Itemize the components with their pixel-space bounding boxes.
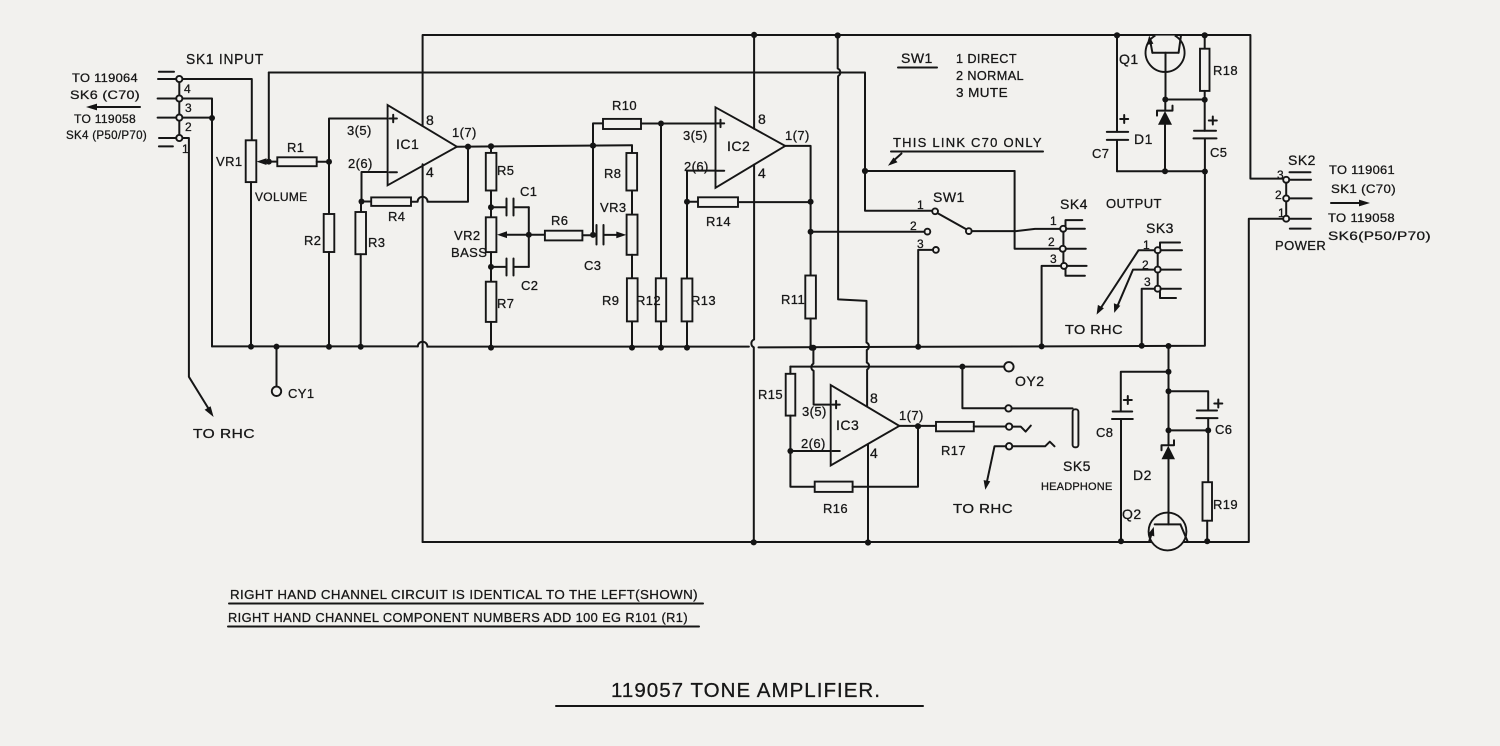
junction pins 2-3: [209, 115, 215, 121]
svg-text:R1: R1: [287, 140, 304, 155]
wire V+ to IC3 pin8 (long, hops link rail, ground rail, OY2 wire): [838, 36, 869, 408]
svg-text:SK4: SK4: [1060, 196, 1088, 212]
wire R10 to IC2 plus: [641, 123, 716, 125]
wire base node to R18 bottom: [1165, 99, 1204, 101]
jack contact (tip, with break): [1006, 423, 1031, 431]
svg-text:SW1: SW1: [933, 189, 965, 205]
svg-text:OUTPUT: OUTPUT: [1106, 196, 1162, 211]
junction OY2 tee: [959, 364, 965, 370]
ground rail: [212, 172, 1205, 348]
wire OY2 net (R15 top along to jack): [790, 366, 962, 368]
wire R14 to IC2 output column: [738, 201, 811, 203]
potentiometer VR3: [600, 200, 638, 255]
resistor R17: [936, 422, 974, 458]
resistor R5: [486, 146, 515, 190]
svg-text:C1: C1: [520, 184, 537, 199]
svg-text:R13: R13: [691, 293, 716, 308]
potentiometer VR2: [451, 217, 496, 260]
wire SK3 pin2 with arrow to RHC: [1114, 270, 1155, 313]
label SW1 heading (underlined): [898, 50, 937, 68]
wire SW1 pole2 to IC2 output node: [811, 231, 925, 233]
capacitor C3: [584, 225, 604, 273]
SK1 left prongs: [158, 72, 177, 147]
svg-text:C2: C2: [521, 278, 538, 293]
resistor R14: [687, 197, 738, 229]
resistor R3: [355, 202, 385, 347]
junction R13 on rail: [684, 345, 690, 351]
resistor R7: [486, 282, 515, 322]
junction D2 cathode link: [1166, 427, 1172, 433]
VR2 wiper arrow: [497, 231, 507, 238]
svg-text:R3: R3: [368, 235, 385, 250]
svg-text:2: 2: [1048, 235, 1055, 249]
junction IC1 output: [465, 144, 471, 150]
junction IC2 pin8 on V+ rail: [751, 32, 757, 38]
title 119057 TONE AMPLIFIER (underlined): [556, 680, 923, 706]
svg-text:4: 4: [184, 82, 191, 96]
resistor R15: [758, 367, 795, 451]
wire IC2 minus input: [687, 171, 716, 202]
svg-text:2(6): 2(6): [801, 436, 826, 451]
wire ground node down to ground rail: [211, 118, 213, 346]
transistor Q2: [1122, 506, 1188, 550]
wire IC2 pin4 down to negative rail: [751, 165, 754, 543]
junction C8 on negative rail: [1118, 538, 1124, 544]
wire R9 bottom to ground rail: [631, 321, 633, 347]
svg-text:R5: R5: [497, 163, 514, 178]
svg-text:4: 4: [426, 164, 434, 180]
svg-text:3(5): 3(5): [802, 404, 827, 419]
svg-text:1(7): 1(7): [785, 128, 810, 143]
svg-text:2: 2: [185, 120, 192, 134]
transistor Q1: [1119, 36, 1185, 72]
svg-text:RIGHT HAND CHANNEL COMPONENT N: RIGHT HAND CHANNEL COMPONENT NUMBERS ADD…: [228, 610, 688, 625]
terminal OY2: [962, 362, 1044, 389]
svg-text:TO 119061: TO 119061: [1329, 163, 1395, 177]
svg-text:Q1: Q1: [1119, 51, 1139, 67]
resistor R13: [682, 202, 716, 348]
svg-text:1(7): 1(7): [452, 125, 477, 140]
junction ground link right end: [1202, 169, 1208, 175]
wire R17 to jack contact: [974, 426, 1006, 428]
junction D2 column on ground rail: [1166, 343, 1172, 349]
capacitor C5: [1194, 100, 1228, 172]
junction D1 anode on ground link: [1162, 168, 1168, 174]
svg-text:IC3: IC3: [836, 417, 859, 433]
junction C6 tap: [1166, 388, 1172, 394]
resistor R6: [545, 213, 583, 240]
resistor R12: [636, 124, 666, 348]
junction CY1 on rail: [274, 344, 280, 350]
svg-text:R8: R8: [604, 166, 621, 181]
resistor R11: [781, 276, 816, 348]
wire ground rail down to D2: [1168, 346, 1170, 444]
svg-text:R11: R11: [781, 292, 805, 307]
direct-link rail (VR1 wiper to SW1): [269, 73, 865, 172]
junction R7 on rail: [488, 345, 494, 351]
connector SK1 (input): [158, 51, 264, 156]
svg-text:3: 3: [1144, 275, 1151, 289]
svg-text:SW1: SW1: [901, 50, 933, 66]
junction R18 bottom node: [1202, 97, 1208, 103]
svg-text:R14: R14: [706, 214, 731, 229]
junction VR1 bottom on rail: [248, 344, 254, 350]
wire SW1 arm to SK4 column: [972, 230, 1015, 232]
svg-text:C3: C3: [584, 258, 601, 273]
wire C1 to C2 link: [528, 207, 530, 267]
wire IC1 output bus: [457, 145, 632, 147]
wire link (C70 only): [865, 170, 1015, 172]
wire +input node to IC1 plus: [329, 119, 388, 162]
junction direct-link on wiper line: [862, 168, 868, 174]
junction R12 on rail: [658, 345, 664, 351]
svg-text:SK6(P50/P70): SK6(P50/P70): [1328, 229, 1431, 243]
junction feedback node: [808, 199, 814, 205]
label THIS LINK C70 ONLY (underlined): [891, 135, 1043, 152]
wire IC2 pin8 to V+ rail: [753, 35, 755, 129]
arrowhead to RHC (bottom left): [205, 406, 214, 417]
junction C2 tap: [488, 264, 494, 270]
wire IC3 minus input: [790, 450, 830, 452]
junction R5 top on output bus: [488, 143, 494, 149]
svg-text:R19: R19: [1213, 497, 1238, 512]
wire to SK4 pin1: [1015, 229, 1061, 231]
svg-text:THIS LINK C70 ONLY: THIS LINK C70 ONLY: [893, 135, 1042, 150]
junction R2 bottom on rail: [326, 344, 332, 350]
svg-text:R12: R12: [636, 293, 661, 308]
svg-text:R2: R2: [304, 233, 321, 248]
connector SK4 (output): [1048, 196, 1162, 276]
capacitor C6: [1169, 391, 1233, 437]
wire wiper node up to direct-link rail: [268, 73, 270, 162]
note line 1 (underlined): [229, 587, 703, 604]
junction R15 bottom / minus input: [787, 448, 793, 454]
zener diode D1: [1134, 100, 1173, 172]
capacitor CY1: [272, 347, 315, 401]
junction C1 tap: [488, 204, 494, 210]
svg-text:C6: C6: [1215, 422, 1232, 437]
note line 2 (underlined): [228, 610, 699, 627]
wire R5 to VR2: [490, 191, 492, 218]
svg-text:2(6): 2(6): [348, 156, 373, 171]
jack contact (ring) wire: [962, 367, 1005, 409]
junction plus input on ground rail: [810, 345, 816, 351]
svg-text:1: 1: [917, 198, 924, 212]
svg-text:SK6 (C70): SK6 (C70): [70, 88, 140, 102]
junction R3/R4/minus: [359, 199, 365, 205]
svg-text:VR1: VR1: [216, 154, 243, 169]
resistor R2: [304, 162, 334, 347]
wire D2 cathode link to R19: [1169, 429, 1209, 431]
wire IC1 minus to R3/R4 node: [362, 172, 388, 202]
wire R7 bottom to ground rail: [490, 322, 492, 348]
junction output/R11/switch node: [808, 229, 814, 235]
arrow to SK6 (pointing left): [86, 104, 140, 111]
potentiometer VR1: [216, 140, 307, 204]
svg-text:VR2: VR2: [454, 228, 481, 243]
wire SK1 pin1 down: [182, 138, 210, 412]
svg-text:D1: D1: [1134, 131, 1153, 147]
negative rail (bottom): [423, 219, 1283, 542]
wire VR1 wiper to R1: [263, 161, 277, 163]
junction Q1 base node: [1162, 97, 1168, 103]
junction IC2 pin4 on negative rail: [751, 539, 757, 545]
svg-text:Q2: Q2: [1122, 506, 1142, 522]
wire VR2 to R7: [490, 252, 492, 282]
svg-text:R10: R10: [612, 98, 637, 113]
resistor R4: [362, 197, 412, 224]
junction IC3 output: [915, 423, 921, 429]
svg-text:8: 8: [426, 112, 434, 128]
jack contact (sleeve/switch): [1006, 442, 1055, 450]
wire SK3 pin3 to ground: [1142, 289, 1155, 346]
VR3 wiper arrow: [616, 232, 626, 239]
wire SW1 pole3 to ground: [918, 250, 933, 347]
wire IC3 pin4 to negative rail: [867, 444, 869, 543]
svg-text:VR3: VR3: [600, 200, 627, 215]
wire VR3 to R9: [631, 255, 633, 278]
resistor R10: [593, 98, 641, 146]
junction R11 on rail: [809, 345, 815, 351]
svg-text:TO RHC: TO RHC: [953, 501, 1013, 516]
wire SK4 pin3 to ground: [1042, 266, 1061, 347]
junction C7 top on V+ rail: [1114, 32, 1120, 38]
svg-text:R9: R9: [602, 293, 619, 308]
wire C3 to VR3 wiper: [604, 234, 621, 236]
svg-text:3(5): 3(5): [347, 123, 372, 138]
arrow to SK1 (pointing right): [1331, 200, 1370, 207]
svg-text:C5: C5: [1210, 145, 1227, 160]
capacitor C7: [1092, 35, 1128, 171]
wire wiper line down to SW1 pole 1: [865, 171, 932, 211]
wire sleeve contact with arrow to RHC: [984, 446, 1006, 489]
svg-text:1: 1: [1050, 214, 1057, 228]
wire VR1 bottom to ground rail: [250, 182, 252, 347]
wire IC1 pin4 down to negative rail: [422, 164, 424, 542]
svg-text:8: 8: [870, 390, 878, 406]
junction R18 top on V+ rail: [1202, 32, 1208, 38]
svg-text:SK1 INPUT: SK1 INPUT: [186, 51, 264, 68]
junction R12 tap: [658, 121, 664, 127]
svg-text:119057 TONE AMPLIFIER.: 119057 TONE AMPLIFIER.: [611, 680, 881, 702]
svg-text:SK3: SK3: [1146, 220, 1174, 236]
resistor R16: [790, 451, 852, 516]
junction C8 tap: [1166, 369, 1172, 375]
junction R3 bottom on rail: [358, 344, 364, 350]
svg-text:TO RHC: TO RHC: [1065, 322, 1123, 337]
svg-text:R4: R4: [388, 209, 405, 224]
op-amp IC1: [388, 105, 457, 185]
junction pole3 on ground rail: [915, 344, 921, 350]
resistor R1: [277, 140, 316, 166]
wire R16 to IC3 output: [853, 426, 918, 487]
switch SW1: [910, 189, 972, 253]
wire VR2 wiper to R6: [504, 234, 545, 236]
svg-text:R15: R15: [758, 387, 783, 402]
junction R9 on rail: [629, 345, 635, 351]
junction wiper node: [266, 159, 272, 165]
wire R8 to VR3: [631, 191, 633, 215]
svg-text:SK1 (C70): SK1 (C70): [1331, 182, 1396, 196]
svg-text:R6: R6: [551, 213, 568, 228]
svg-text:VOLUME: VOLUME: [255, 190, 307, 204]
svg-text:C7: C7: [1092, 146, 1109, 161]
svg-text:SK5: SK5: [1063, 458, 1091, 474]
svg-text:4: 4: [870, 445, 878, 461]
junction IC3 supply tap on V+ rail: [835, 32, 841, 38]
arrow from link note to link wire: [888, 154, 902, 166]
junction SK4 pin3 on rail: [1039, 343, 1045, 349]
svg-text:CY1: CY1: [288, 386, 315, 401]
junction C1-C2 link on wiper wire: [526, 232, 532, 238]
svg-text:IC2: IC2: [727, 138, 750, 154]
junction C3 node: [590, 232, 596, 238]
wire R4 to IC1 output (hops pin4 line): [411, 150, 468, 202]
jack contact ring circle: [1005, 405, 1011, 411]
capacitor C8: [1096, 372, 1169, 541]
svg-text:3 MUTE: 3 MUTE: [956, 85, 1008, 100]
V+ top rail: [423, 35, 1283, 179]
svg-text:2 NORMAL: 2 NORMAL: [956, 68, 1024, 83]
wire Q1 base down: [1165, 53, 1167, 100]
svg-text:8: 8: [758, 111, 766, 127]
svg-text:4: 4: [758, 165, 766, 181]
junction R10 riser on bus: [590, 143, 596, 149]
wire R1 to +input node: [317, 161, 329, 163]
SK5 plug bar: [1073, 409, 1079, 447]
wire SK3 pin1 with arrow to RHC: [1097, 250, 1155, 314]
svg-text:RIGHT HAND CHANNEL CIRCUIT IS: RIGHT HAND CHANNEL CIRCUIT IS IDENTICAL …: [230, 587, 698, 602]
svg-text:POWER: POWER: [1275, 238, 1326, 253]
wire output bus drop to C3 node: [592, 146, 594, 235]
VR1 wiper arrow: [257, 158, 267, 165]
svg-text:R18: R18: [1213, 63, 1238, 78]
svg-text:3(5): 3(5): [683, 128, 708, 143]
wire link column down to SK4 pins: [1015, 171, 1060, 249]
wire SK1 pin2 to ground node: [182, 117, 212, 119]
svg-text:SK2: SK2: [1288, 152, 1316, 168]
resistor R9: [602, 278, 638, 321]
junction IC3 pin4 on negative rail: [865, 539, 871, 545]
resistor R18: [1200, 35, 1238, 100]
svg-text:TO RHC: TO RHC: [193, 426, 255, 441]
svg-text:3: 3: [1050, 252, 1057, 266]
svg-text:BASS: BASS: [451, 245, 487, 260]
junction R1/R2/+input: [326, 159, 332, 165]
op-amp IC2: [716, 107, 786, 188]
ground rail hop over IC1 pin4: [418, 342, 428, 347]
svg-text:TO 119058: TO 119058: [74, 112, 136, 126]
svg-text:1 DIRECT: 1 DIRECT: [956, 51, 1017, 66]
resistor R19: [1203, 430, 1239, 541]
svg-text:SK4 (P50/P70): SK4 (P50/P70): [66, 128, 147, 142]
svg-text:3: 3: [185, 101, 192, 115]
capacitor C2: [491, 259, 538, 294]
svg-text:2: 2: [1275, 188, 1282, 202]
op-amp IC3: [831, 385, 900, 466]
svg-text:1(7): 1(7): [899, 408, 924, 423]
svg-text:R17: R17: [941, 443, 966, 458]
connector SK3: [1142, 220, 1182, 298]
junction SK3 pin3 on rail: [1139, 343, 1145, 349]
wire IC2 output down: [785, 146, 810, 276]
resistor R8: [604, 145, 637, 190]
svg-text:R7: R7: [497, 296, 514, 311]
wire R6 to C3 node: [582, 234, 593, 236]
wire IC3 plus input to ground rail (hops OY2 wire): [811, 348, 830, 405]
SK1 pin circles and body: [178, 82, 180, 135]
junction R19 on negative rail: [1204, 538, 1210, 544]
capacitor C1: [491, 184, 537, 216]
svg-text:D2: D2: [1133, 467, 1152, 483]
svg-text:OY2: OY2: [1015, 373, 1045, 389]
wire ring contact to SK5 plug: [1012, 407, 1073, 409]
wire SK1 pin4 to VR1 top: [182, 79, 251, 140]
zener diode D2: [1133, 440, 1175, 512]
wire SK1 pin3 to ground node: [182, 99, 212, 119]
svg-text:C8: C8: [1096, 425, 1113, 440]
svg-text:HEADPHONE: HEADPHONE: [1041, 481, 1112, 493]
wire C7/D1/C5 ground link: [1117, 170, 1205, 172]
svg-text:TO 119058: TO 119058: [1328, 211, 1395, 225]
svg-text:TO 119064: TO 119064: [72, 71, 138, 85]
junction R19 top node: [1205, 427, 1211, 433]
connector SK2 (power): [1275, 152, 1316, 229]
svg-text:R16: R16: [823, 501, 848, 516]
wire IC3 output to R17: [899, 425, 936, 427]
svg-text:IC1: IC1: [396, 136, 419, 152]
junction R14/R13 node: [684, 199, 690, 205]
